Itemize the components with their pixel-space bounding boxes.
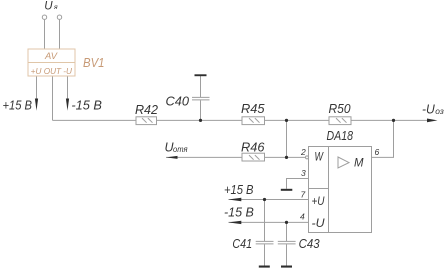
- svg-text:7: 7: [301, 189, 306, 199]
- svg-text:+U OUT -U: +U OUT -U: [31, 67, 73, 76]
- svg-text:-15 В: -15 В: [71, 97, 102, 112]
- svg-text:-U: -U: [422, 103, 436, 117]
- svg-text:6: 6: [375, 147, 380, 157]
- svg-text:C41: C41: [232, 236, 252, 251]
- svg-text:R42: R42: [135, 102, 159, 117]
- svg-text:DA18: DA18: [327, 128, 354, 143]
- svg-text:M: M: [354, 158, 364, 170]
- svg-text:+15 В: +15 В: [224, 182, 254, 197]
- svg-text:U: U: [44, 0, 53, 12]
- svg-text:4: 4: [300, 211, 305, 221]
- svg-text:-15 В: -15 В: [224, 205, 254, 220]
- svg-text:AV: AV: [44, 51, 59, 62]
- svg-text:W: W: [315, 151, 324, 163]
- svg-text:C43: C43: [299, 236, 321, 251]
- svg-text:+15 В: +15 В: [3, 97, 33, 112]
- svg-text:R50: R50: [329, 101, 352, 116]
- svg-text:2: 2: [300, 147, 306, 157]
- svg-text:-U: -U: [312, 218, 326, 230]
- svg-text:R46: R46: [241, 139, 265, 154]
- svg-text:оз: оз: [435, 107, 444, 116]
- svg-text:+U: +U: [312, 196, 326, 208]
- svg-text:отя: отя: [173, 145, 188, 154]
- svg-text:BV1: BV1: [83, 55, 105, 70]
- svg-text:я: я: [53, 4, 58, 11]
- svg-text:3: 3: [301, 168, 306, 178]
- svg-text:R45: R45: [241, 101, 265, 116]
- svg-text:C40: C40: [166, 93, 190, 108]
